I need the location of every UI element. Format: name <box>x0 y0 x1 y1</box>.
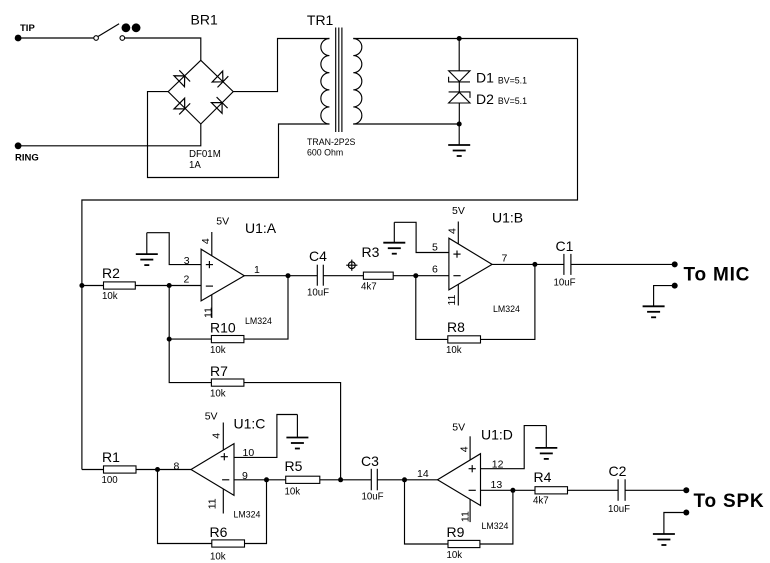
svg-text:LM324: LM324 <box>245 316 272 326</box>
origin marker <box>346 260 357 271</box>
svg-text:To SPK: To SPK <box>694 491 765 512</box>
junction R3/R8 node <box>413 273 418 278</box>
svg-text:10k: 10k <box>210 552 226 563</box>
svg-text:10uF: 10uF <box>554 278 576 289</box>
svg-text:5: 5 <box>432 242 438 254</box>
svg-text:6: 6 <box>432 264 438 276</box>
wire R9 loop <box>405 480 449 544</box>
transformer TR1 core <box>335 28 337 133</box>
svg-text:4: 4 <box>447 228 459 234</box>
op-amp U1:C body <box>191 444 234 496</box>
wire R7 to lower net <box>244 383 341 480</box>
svg-text:5V: 5V <box>452 205 465 217</box>
svg-text:To MIC: To MIC <box>684 265 751 286</box>
resistor R7 <box>211 379 244 386</box>
svg-text:R6: R6 <box>210 524 228 540</box>
svg-text:C3: C3 <box>361 453 379 469</box>
wire SPK ground <box>664 513 686 534</box>
wire switch to bridge top <box>125 38 201 60</box>
bridge diode c <box>174 98 190 114</box>
op-amp U1:A pin11 lead <box>211 293 213 319</box>
resistor R9 <box>448 540 480 547</box>
svg-text:12: 12 <box>492 458 504 470</box>
junction C3/R9 <box>402 477 407 482</box>
svg-text:U1:C: U1:C <box>234 416 266 432</box>
ground at U1:A pin3 <box>136 254 158 265</box>
wire R1 to U1:C output <box>136 469 191 471</box>
wire secondary top to right bus <box>353 38 577 40</box>
svg-text:600 Ohm: 600 Ohm <box>307 148 343 158</box>
wire R2 to pin2 <box>135 285 201 287</box>
junction top of zeners <box>457 36 462 41</box>
svg-text:10: 10 <box>243 447 255 459</box>
wire MIC ground <box>654 286 675 307</box>
wire R3 to pin6 <box>393 275 449 277</box>
op-amp U1:B body <box>449 238 492 290</box>
svg-text:10k: 10k <box>210 389 226 400</box>
wire R6 loop <box>158 470 212 544</box>
wire RING to bridge bottom <box>18 124 201 146</box>
transformer TR1 primary coil <box>321 39 330 124</box>
svg-text:R5: R5 <box>285 458 303 474</box>
op-amp U1:C pin11 lead <box>222 485 224 514</box>
ground at U1:D pin12 <box>545 426 547 448</box>
ground at SPK <box>653 534 675 545</box>
svg-text:U1:A: U1:A <box>245 220 277 236</box>
svg-text:5V: 5V <box>216 216 229 228</box>
wire C1 to MIC terminal <box>571 263 675 265</box>
resistor R5 <box>286 476 320 483</box>
svg-text:R8: R8 <box>447 319 465 335</box>
svg-text:5V: 5V <box>205 411 218 423</box>
wire pin13 <box>481 489 536 491</box>
svg-text:10uF: 10uF <box>307 288 329 299</box>
wire right bus to left bus <box>82 39 578 470</box>
wire C3 to U1:D output <box>377 479 437 481</box>
terminal To SPK ground <box>683 510 689 516</box>
bridge diode b <box>212 71 228 88</box>
zener diode D2 <box>449 92 470 103</box>
ground at transformer secondary <box>458 124 460 145</box>
bridge diode d <box>211 97 227 113</box>
svg-text:11: 11 <box>203 307 215 318</box>
wire U1:B output <box>492 263 564 265</box>
svg-text:4k7: 4k7 <box>361 282 377 293</box>
op-amp U1:D pin4 lead <box>469 436 471 466</box>
svg-text:BV=5.1: BV=5.1 <box>498 76 527 86</box>
svg-text:3: 3 <box>184 255 190 267</box>
junction R1/R6 <box>155 467 160 472</box>
ground at U1:C pin10 <box>296 415 298 438</box>
svg-text:LM324: LM324 <box>482 521 509 531</box>
svg-text:4: 4 <box>458 446 470 452</box>
wire pin10 to ground <box>234 415 297 458</box>
svg-text:13: 13 <box>491 479 503 491</box>
bridge diode a <box>174 70 190 87</box>
wire R10 to node <box>169 338 211 340</box>
wire R6 to pin9 node <box>245 480 267 544</box>
svg-text:D2: D2 <box>476 91 494 107</box>
svg-text:10k: 10k <box>210 345 226 356</box>
svg-text:C2: C2 <box>609 463 627 479</box>
svg-text:R10: R10 <box>210 320 236 336</box>
wire R9 to pin13 node <box>480 490 513 544</box>
junction R5/R7 net <box>338 477 343 482</box>
resistor R2 <box>104 282 136 289</box>
terminal To MIC ground <box>672 283 678 289</box>
switch SW1 <box>94 23 141 40</box>
zener diode D1 <box>449 71 470 82</box>
bridge rectifier BR1 diamond <box>168 60 233 124</box>
wire secondary bottom <box>353 123 459 125</box>
wire R8 to node <box>416 276 448 340</box>
wire C2 to SPK terminal <box>625 489 686 491</box>
wire bridge right vertex to primary top <box>233 39 329 92</box>
junction R10/vertical <box>167 337 172 342</box>
junction output/R10 <box>286 273 291 278</box>
svg-text:10k: 10k <box>446 345 462 356</box>
resistor R1 <box>104 466 137 473</box>
svg-text:TRAN-2P2S: TRAN-2P2S <box>307 137 356 147</box>
svg-text:BV=5.1: BV=5.1 <box>498 96 527 106</box>
svg-text:U1:B: U1:B <box>492 210 523 226</box>
wire node down to R7 <box>169 286 211 383</box>
svg-text:11: 11 <box>207 498 219 509</box>
op-amp U1:B pin4 lead <box>457 222 459 249</box>
svg-text:R7: R7 <box>210 363 228 379</box>
svg-text:C4: C4 <box>309 248 327 264</box>
resistor R6 <box>212 540 245 547</box>
wire ground to pin3 <box>147 233 201 265</box>
wire left bus to R1 <box>82 469 104 471</box>
terminal To MIC signal <box>672 261 678 267</box>
wire output down to R10 <box>244 276 288 339</box>
svg-text:10k: 10k <box>102 291 118 302</box>
ground at U1:B pin5 <box>383 243 405 254</box>
op-amp U1:D pin11 lead <box>469 496 471 523</box>
svg-text:100: 100 <box>102 475 119 486</box>
svg-text:10uF: 10uF <box>608 504 630 515</box>
op-amp U1:D body <box>438 454 481 506</box>
wire zener branch top <box>458 39 460 71</box>
op-amp U1:A pin4 lead <box>211 232 213 259</box>
wire R4 to C2 <box>568 489 619 491</box>
wire TIP to switch <box>18 37 94 39</box>
transformer TR1 secondary coil <box>353 39 362 124</box>
svg-text:10k: 10k <box>285 487 301 498</box>
capacitor C4 <box>317 265 323 286</box>
svg-text:11: 11 <box>446 294 458 305</box>
svg-text:4: 4 <box>211 433 223 439</box>
wire between zeners <box>458 82 460 92</box>
terminal To SPK signal <box>683 487 689 493</box>
svg-text:U1:D: U1:D <box>481 427 513 443</box>
wire R5 to C3 <box>320 479 372 481</box>
wire pin9 <box>234 479 286 481</box>
svg-text:TR1: TR1 <box>307 12 334 28</box>
svg-text:4k7: 4k7 <box>533 496 549 507</box>
terminal TIP <box>15 35 22 42</box>
svg-text:RING: RING <box>15 153 39 164</box>
svg-text:R3: R3 <box>362 244 380 260</box>
resistor R10 <box>211 336 244 343</box>
svg-text:LM324: LM324 <box>493 304 520 314</box>
svg-text:4: 4 <box>200 238 212 244</box>
terminal RING <box>15 142 22 149</box>
resistor R3 <box>363 272 393 279</box>
wire pin12 to ground <box>481 426 547 469</box>
svg-text:1: 1 <box>254 264 260 276</box>
resistor R4 <box>535 487 568 494</box>
junction pin13/R9/R4 <box>510 488 515 493</box>
wire ground to pin5 <box>394 222 449 252</box>
junction pin9/R5/R6 <box>264 477 269 482</box>
svg-text:14: 14 <box>417 468 429 480</box>
svg-text:BR1: BR1 <box>191 12 218 28</box>
svg-text:9: 9 <box>242 470 248 482</box>
ground at MIC <box>643 306 665 317</box>
op-amp U1:C pin4 lead <box>222 423 224 456</box>
svg-text:10uF: 10uF <box>362 492 384 503</box>
op-amp U1:B pin11 lead <box>457 283 459 306</box>
junction output/R8 <box>532 262 537 267</box>
svg-text:DF01M: DF01M <box>189 149 221 160</box>
wire zener branch bottom <box>458 103 460 124</box>
svg-text:D1: D1 <box>476 70 494 86</box>
svg-text:TIP: TIP <box>20 23 35 34</box>
capacitor C3 <box>371 469 377 491</box>
svg-text:R2: R2 <box>102 265 120 281</box>
svg-text:LM324: LM324 <box>234 510 261 520</box>
svg-text:10k: 10k <box>447 550 463 561</box>
wire bridge left vertex to primary bottom <box>148 92 330 178</box>
resistor R8 <box>448 336 481 343</box>
capacitor C2 <box>618 479 625 501</box>
wire to R2 <box>82 285 104 287</box>
svg-text:2: 2 <box>184 274 190 286</box>
junction left bus / R2 <box>79 283 84 288</box>
junction bottom of zeners <box>457 122 462 127</box>
wire C4 to R3 <box>323 275 363 277</box>
op-amp U1:A body <box>201 249 244 301</box>
svg-text:R9: R9 <box>447 524 465 540</box>
wire U1:A output <box>244 275 317 277</box>
svg-text:C1: C1 <box>556 238 574 254</box>
svg-text:R4: R4 <box>534 469 552 485</box>
capacitor C1 <box>564 254 571 275</box>
junction R2/R10 node <box>167 283 172 288</box>
svg-text:7: 7 <box>502 253 508 265</box>
wire output down to R8 <box>481 264 535 339</box>
svg-text:11: 11 <box>459 511 471 522</box>
svg-text:1A: 1A <box>189 160 201 171</box>
svg-text:R1: R1 <box>102 449 120 465</box>
svg-text:8: 8 <box>174 461 180 473</box>
svg-text:5V: 5V <box>452 422 465 434</box>
